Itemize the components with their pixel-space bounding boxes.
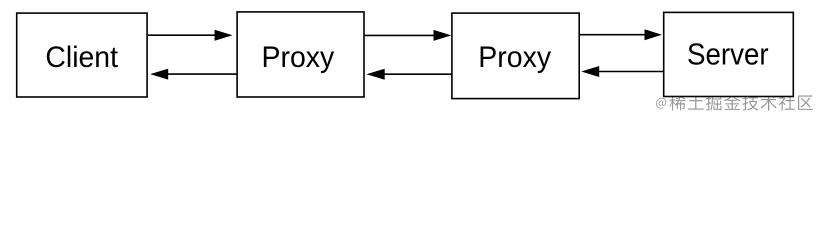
svg-text:Proxy: Proxy xyxy=(262,41,335,74)
arrow Proxy2 to Server (right) : head xyxy=(645,29,662,40)
arrow Proxy2 to Proxy1 (left) : head xyxy=(366,69,384,80)
watermark @稀土掘金技术社区 xyxy=(656,94,813,110)
arrow Client to Proxy1 (right) : head xyxy=(215,30,233,41)
box Proxy2 xyxy=(452,13,579,99)
arrow Proxy1 to Client (left) : wire xyxy=(168,73,237,75)
arrow Server to Proxy2 (left) : head xyxy=(581,66,599,77)
box Proxy1 xyxy=(237,12,364,97)
arrow Proxy1 to Client (left) : head xyxy=(150,69,168,80)
arrow Server to Proxy2 (left) : wire xyxy=(599,71,664,73)
arrow Proxy2 to Proxy1 (left) : wire xyxy=(385,73,452,75)
arrow Proxy1 to Proxy2 (right) : wire xyxy=(364,34,434,36)
arrow Client to Proxy1 (right) : wire xyxy=(147,34,215,36)
svg-text:Server: Server xyxy=(687,37,769,72)
svg-text:Proxy: Proxy xyxy=(478,41,551,74)
arrow Proxy1 to Proxy2 (right) : head xyxy=(434,30,452,41)
box Server xyxy=(664,12,794,96)
svg-text:Client: Client xyxy=(45,41,118,74)
arrow Proxy2 to Server (right) : wire xyxy=(579,34,645,36)
box Client xyxy=(17,13,147,97)
